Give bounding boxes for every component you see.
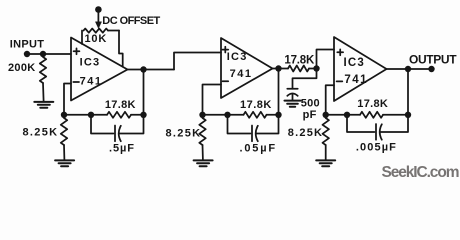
svg-text:500: 500 (301, 98, 320, 110)
svg-text:.05µF: .05µF (240, 143, 277, 155)
svg-text:200K: 200K (8, 62, 36, 74)
svg-text:741: 741 (344, 74, 368, 86)
svg-text:DC OFFSET: DC OFFSET (102, 15, 160, 27)
svg-text:INPUT: INPUT (10, 39, 45, 51)
svg-text:741: 741 (230, 68, 253, 80)
svg-text:pF: pF (303, 109, 317, 121)
svg-text:.005µF: .005µF (356, 141, 397, 153)
svg-text:17.8K: 17.8K (105, 99, 136, 111)
svg-text:17.8K: 17.8K (240, 99, 272, 111)
svg-text:OUTPUT: OUTPUT (409, 53, 457, 67)
svg-text:17.8K: 17.8K (357, 98, 388, 110)
svg-text:8.25K: 8.25K (288, 127, 323, 139)
svg-text:8.25K: 8.25K (23, 126, 59, 138)
svg-text:8.25K: 8.25K (166, 128, 202, 140)
svg-text:IC3: IC3 (80, 56, 101, 68)
svg-text:SeekIC.com: SeekIC.com (382, 164, 459, 181)
svg-text:IC3: IC3 (344, 57, 366, 69)
svg-text:.5µF: .5µF (109, 143, 135, 155)
svg-text:10K: 10K (85, 33, 108, 45)
svg-text:741: 741 (80, 76, 103, 88)
svg-text:17.8K: 17.8K (284, 55, 315, 67)
svg-text:IC3: IC3 (227, 51, 248, 63)
